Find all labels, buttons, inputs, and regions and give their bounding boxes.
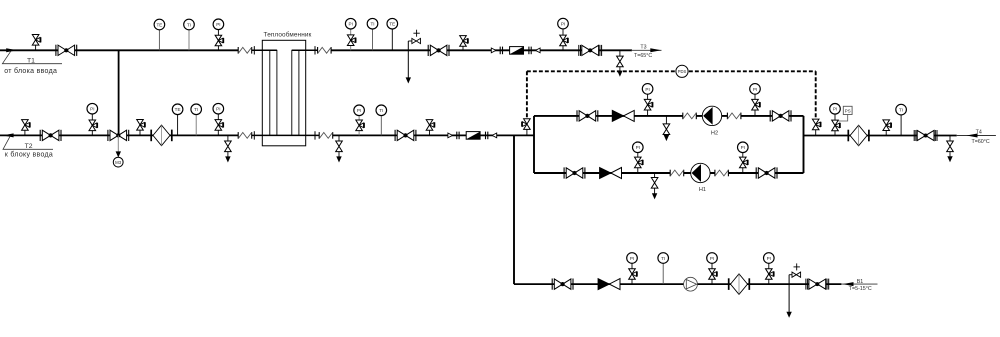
flex connector pump H2 suction xyxy=(683,113,697,120)
water meter on B1 xyxy=(684,277,698,291)
svg-text:М3: М3 xyxy=(115,160,122,165)
svg-text:Т1: Т1 xyxy=(27,57,35,64)
svg-text:РI: РI xyxy=(833,107,837,112)
valve impulse tap left of pump manifold xyxy=(526,129,528,135)
sensor TI1 on T1 xyxy=(188,30,190,51)
sensor PI3 T3 with gauge valve xyxy=(562,29,564,51)
svg-text:Н1: Н1 xyxy=(699,187,706,193)
dashed impulse line left vertical xyxy=(526,71,528,118)
node T1 label leader xyxy=(2,51,62,63)
wire T4 outlet pipe xyxy=(804,135,957,137)
sensor PI8 pump H2 discharge with gauge valve xyxy=(754,94,756,116)
valve shut-off B1 last xyxy=(806,279,829,290)
sensor PI1 on T1 with gauge valve xyxy=(217,30,219,51)
node flange tick T2 after heat exchanger xyxy=(314,131,316,139)
svg-text:РI: РI xyxy=(753,87,757,92)
sensor PI2 after heat exchanger with gauge valve xyxy=(350,29,352,50)
svg-text:ТI: ТI xyxy=(899,108,903,113)
heat exchanger body xyxy=(262,40,305,146)
sensor TE3 on T2 xyxy=(177,114,179,135)
wire T3 label line xyxy=(631,49,662,51)
svg-text:Н2: Н2 xyxy=(711,130,718,136)
flow arrow T3 outlet xyxy=(650,48,661,52)
sensor PI9 pump H1 suction with gauge valve xyxy=(637,152,639,173)
sensor PI5 on T2 with gauge valve xyxy=(217,114,219,136)
wire vertical from T1 to mixing valve xyxy=(118,50,120,134)
valve shut-off B1 first xyxy=(552,279,573,290)
svg-text:Т=60°С: Т=60°С xyxy=(972,139,990,145)
sensor TI5 on T4 xyxy=(900,115,902,136)
node T2 label leader xyxy=(3,136,53,149)
valve air vent T1 outlet xyxy=(462,46,464,50)
wire T1 pipe into heat exchanger xyxy=(252,49,277,51)
wire B1 cold water pipe xyxy=(514,283,841,285)
flex connector T2 after heat exchanger xyxy=(319,132,333,139)
sensor TI2 after heat exchanger xyxy=(372,29,374,50)
svg-text:Т=65°С: Т=65°С xyxy=(634,53,652,59)
valve shut-off T1 xyxy=(56,45,77,56)
flow arrow T2 outlet xyxy=(3,133,14,137)
wire pump manifold right vertical xyxy=(803,116,805,173)
node flange tick T1 at heat exchanger inlet xyxy=(253,46,255,54)
valve air vent on T4 xyxy=(885,130,887,135)
heat exchanger left channel xyxy=(270,50,277,135)
drain valve T2 after heat exchanger xyxy=(338,135,340,141)
svg-text:Т3: Т3 xyxy=(640,45,646,51)
svg-text:РI: РI xyxy=(741,145,745,150)
svg-text:ТI: ТI xyxy=(187,22,191,27)
sensor TI6 on B1 xyxy=(662,263,664,284)
svg-text:РI: РI xyxy=(561,22,565,27)
svg-text:PS: PS xyxy=(845,109,851,114)
check valve B1 xyxy=(598,279,620,290)
dashed impulse line right vertical xyxy=(815,71,817,119)
sensor PI7 pump H2 suction with gauge valve xyxy=(647,94,649,116)
svg-text:РI: РI xyxy=(357,108,361,113)
flow meter T1 xyxy=(491,47,540,55)
flow arrow T1 inlet xyxy=(6,48,17,52)
flex connector pump H2 discharge xyxy=(727,113,741,120)
sensor PI10 pump H1 discharge with gauge valve xyxy=(742,152,744,173)
valve shut-off T1 outlet xyxy=(428,45,449,56)
drain valve T4 xyxy=(949,136,951,142)
sensor TE2 after heat exchanger xyxy=(391,29,393,50)
svg-text:ТЕ: ТЕ xyxy=(175,107,181,112)
drain valve T3 xyxy=(619,50,621,56)
wire B1 label line xyxy=(841,283,877,285)
strainer on T2 xyxy=(151,125,172,146)
valve air vent T2 before pumps xyxy=(429,130,431,135)
wire pump manifold left vertical xyxy=(533,116,535,173)
svg-text:В1: В1 xyxy=(857,279,864,285)
pump H2 xyxy=(702,106,721,125)
valve shut-off pump H1 suction xyxy=(564,167,585,178)
valve impulse tap right of pump manifold xyxy=(815,129,817,135)
flow meter T2 xyxy=(448,132,497,140)
flow arrow T4 inlet xyxy=(967,134,978,138)
svg-text:РI: РI xyxy=(630,256,634,261)
sensor PI14 on B1 with gauge valve xyxy=(768,263,770,284)
wire T1 supply pipe left segment xyxy=(0,49,238,51)
sensor PDS differential pressure switch xyxy=(676,65,688,77)
svg-text:ТI: ТI xyxy=(379,108,383,113)
flex connector T1 before heat exchanger xyxy=(238,47,252,54)
svg-text:ТЕ: ТЕ xyxy=(389,22,395,27)
valve shut-off pump H1 discharge xyxy=(756,167,777,178)
svg-text:РI: РI xyxy=(645,87,649,92)
check valve pump H2 xyxy=(612,110,634,121)
flex connector pump H1 suction xyxy=(670,170,684,177)
valve shut-off T3 xyxy=(579,45,602,56)
svg-text:РI: РI xyxy=(636,145,640,150)
drain with air vent assembly on T1 xyxy=(407,41,409,78)
sensor TI3 on T2 xyxy=(195,114,197,135)
svg-text:РI: РI xyxy=(710,256,714,261)
wire T1 pipe out of heat exchanger xyxy=(292,49,318,51)
valve air vent after mixing valve xyxy=(139,130,141,135)
svg-text:ТI: ТI xyxy=(370,22,374,27)
wire T2 pipe to pump manifold xyxy=(333,134,534,136)
flex connector T2 before heat exchanger xyxy=(238,132,252,139)
sensor PS pressure switch xyxy=(843,106,852,114)
wire T2 pipe through heat exchanger xyxy=(252,134,320,136)
svg-text:РI: РI xyxy=(90,107,94,112)
check valve pump H1 xyxy=(600,167,622,178)
drain valve pump H2 branch xyxy=(665,116,667,124)
svg-text:РI: РI xyxy=(767,256,771,261)
flex connector pump H1 discharge xyxy=(715,170,729,177)
svg-text:Теплообменник: Теплообменник xyxy=(264,30,312,38)
valve shut-off pump H2 discharge xyxy=(770,110,791,121)
svg-text:PDS: PDS xyxy=(678,69,687,74)
drain with air vent assembly on B1 xyxy=(788,275,790,312)
valve shut-off T2 before pumps xyxy=(395,130,416,141)
dashed impulse line top horizontal xyxy=(527,70,816,72)
sensor TE1 on T1 xyxy=(158,30,160,51)
sensor PI6 on T2 with gauge valve xyxy=(358,115,360,135)
flex connector T1 after heat exchanger xyxy=(318,47,332,54)
wire T2 return pipe left segment xyxy=(0,134,238,136)
drain valve pump H1 branch xyxy=(654,173,656,178)
sensor PI11 on T4 with gauge valve xyxy=(834,114,836,136)
strainer on B1 xyxy=(729,274,750,295)
valve air vent on T2 xyxy=(24,130,26,135)
heat exchanger right channel xyxy=(292,50,299,135)
valve shut-off T4 xyxy=(914,130,937,141)
sensor PI4 on T2 with gauge valve xyxy=(91,114,93,136)
node flange tick T1 at heat exchanger outlet xyxy=(314,46,316,54)
svg-text:ТI: ТI xyxy=(194,107,198,112)
flow arrow B1 inlet xyxy=(843,282,854,286)
valve shut-off T2 xyxy=(40,130,61,141)
svg-text:ТЕ: ТЕ xyxy=(156,22,162,27)
valve shut-off pump H2 suction xyxy=(577,110,598,121)
svg-text:к блоку ввода: к блоку ввода xyxy=(5,151,53,159)
svg-text:от блока ввода: от блока ввода xyxy=(4,67,57,75)
wire vertical drop to B1 line xyxy=(513,135,515,284)
svg-text:РI: РI xyxy=(216,107,220,112)
wire pump branch bottom H1 xyxy=(534,172,670,174)
svg-text:РI: РI xyxy=(349,22,353,27)
sensor PI13 on B1 with gauge valve xyxy=(711,263,713,284)
wire T4 label line xyxy=(957,135,996,137)
wire pump branch top H2 xyxy=(534,115,683,117)
svg-text:ТI: ТI xyxy=(661,256,665,261)
valve three-way mixing with actuator M3 xyxy=(108,130,129,141)
svg-text:РI: РI xyxy=(216,22,220,27)
valve air vent on T1 xyxy=(35,45,37,51)
sensor PI12 on B1 with gauge valve xyxy=(631,263,633,284)
pump H1 xyxy=(691,163,710,182)
drain valve on T2 left xyxy=(227,135,229,141)
wire T1 pipe to T3 outlet xyxy=(331,49,632,51)
strainer on T4 xyxy=(848,125,869,146)
svg-text:Т2: Т2 xyxy=(25,143,33,150)
node flange tick T2 at heat exchanger xyxy=(253,131,255,139)
svg-text:Т=5-15°С: Т=5-15°С xyxy=(849,286,872,292)
sensor TI4 on T2 xyxy=(380,115,382,135)
svg-text:Т4: Т4 xyxy=(976,130,982,136)
